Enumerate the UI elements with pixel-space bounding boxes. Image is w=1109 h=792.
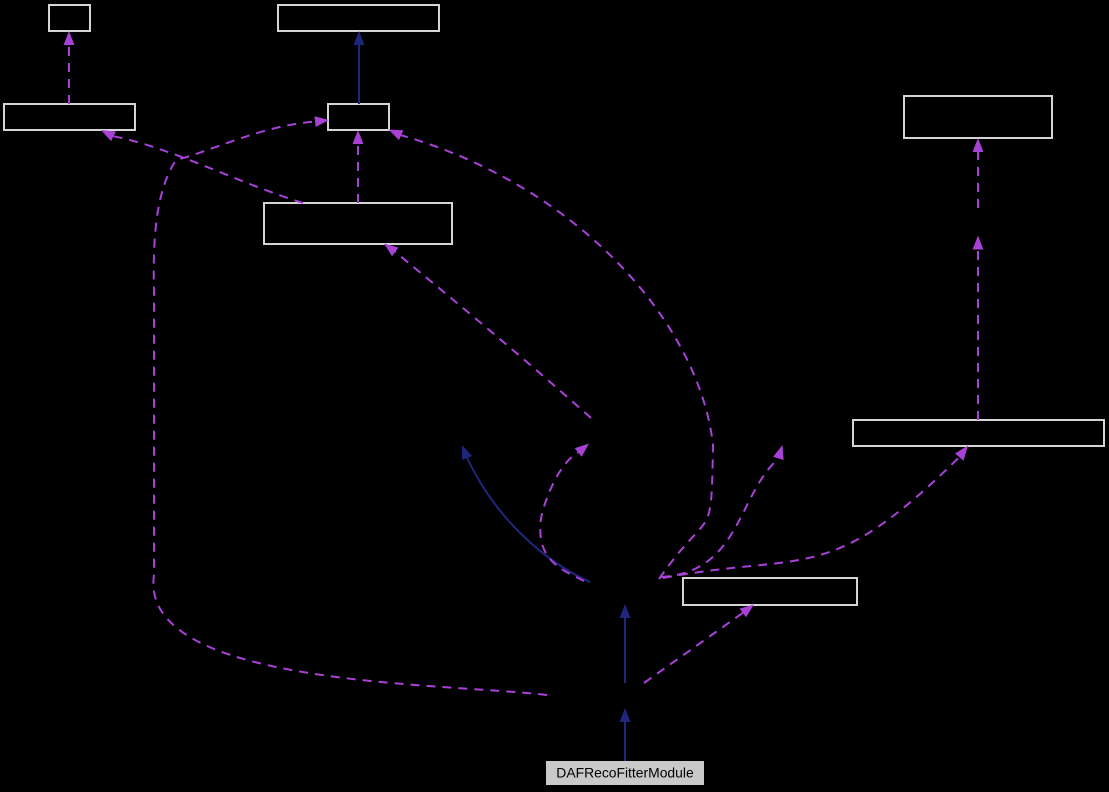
- edge E2 blue: B4 to B2: [354, 31, 365, 104]
- node B7 (wide empty class box right): [853, 420, 1104, 446]
- node B6 (two-line empty class box top-right): [904, 96, 1052, 138]
- svg-text:DAFRecoFitterModule: DAFRecoFitterModule: [556, 765, 694, 781]
- edge E4 dashed: long left loop from hidden node H1 to B4 left edge: [153, 116, 547, 695]
- edge E8 dashed: hidden node H2 to B7 bottom: [663, 446, 968, 579]
- edge E14 dashed S-curve: hidden node H2 to hidden node H3: [540, 444, 589, 582]
- node B2 (empty class box top-middle): [278, 5, 439, 31]
- node B5 (two-line empty class box mid-left): [264, 203, 452, 244]
- edge E11 blue: B9 to hidden node H1: [620, 708, 631, 761]
- edge E6 dashed: hidden node H3 to B5 bottom: [384, 244, 591, 419]
- node B4 (small empty class box middle): [328, 104, 389, 130]
- edge E16 dashed: hidden node H6 to B6 bottom: [973, 138, 984, 208]
- edge E5 dashed: B5 top-left to B3: [101, 130, 303, 203]
- edge E10 dashed: hidden node H1 to B8 bottom: [644, 605, 754, 684]
- edge E3 dashed: B5 to B4: [353, 130, 364, 203]
- edge E13 blue curve: hidden node H2 to hidden node H5: [462, 445, 590, 582]
- node B1 (empty class box top-left): [49, 5, 90, 31]
- edge E1 dashed: B3 to B1: [64, 31, 75, 104]
- edge E9 dashed: hidden node H2 to hidden node H4: [661, 445, 784, 577]
- edge E7 dashed: hidden node H2 to B4 bottom-right, big right bulge: [389, 130, 714, 580]
- node B3 (empty class box left): [4, 104, 135, 130]
- node B9 DAFRecoFitterModule (grey filled): [546, 761, 704, 785]
- edge E15 dashed: B7 top to hidden node H6: [973, 236, 984, 421]
- edge E12 blue: hidden node H1 to hidden node H2: [620, 604, 631, 683]
- node B8 (empty class box mid-right): [683, 578, 857, 605]
